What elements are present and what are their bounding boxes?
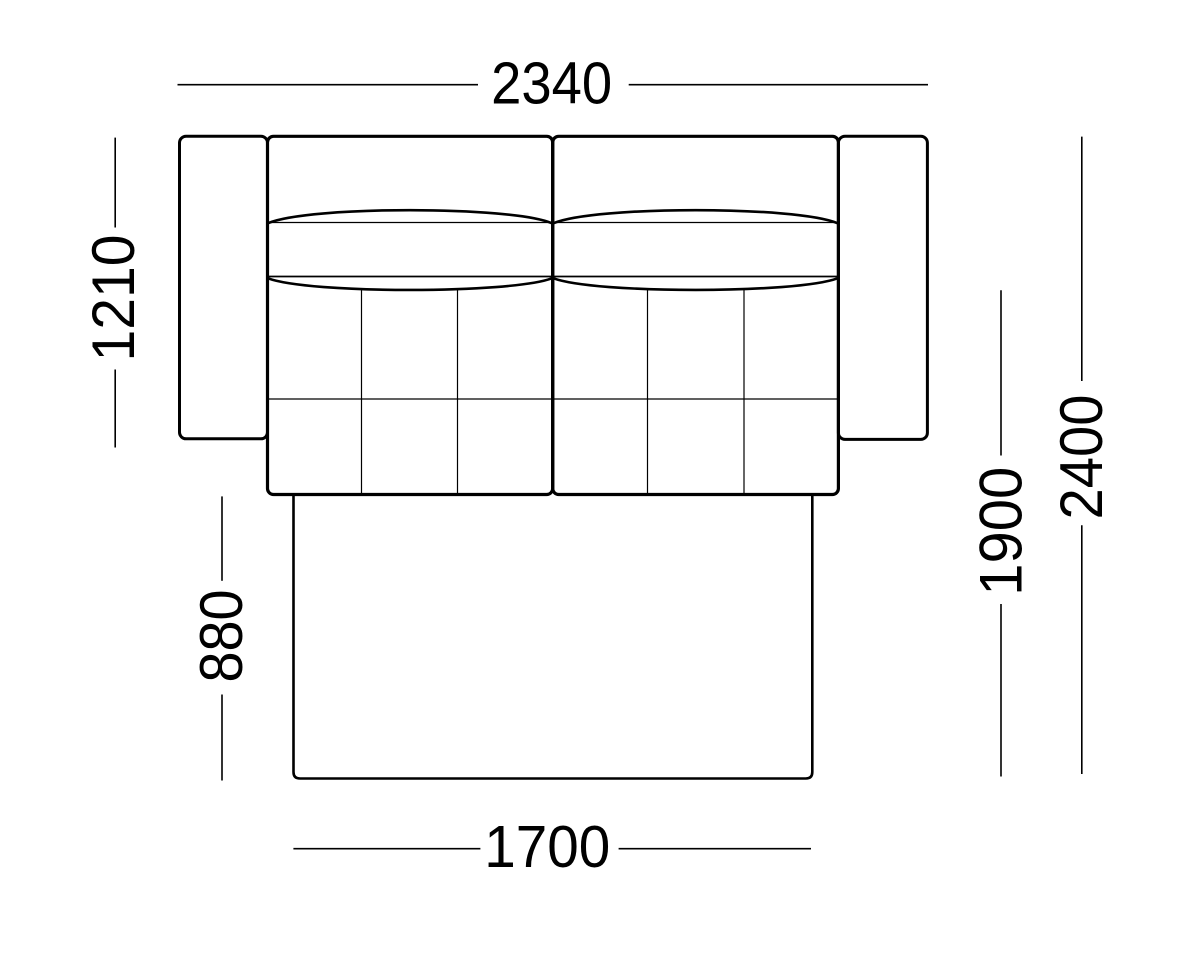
dim 2340 line left segment bbox=[178, 84, 479, 86]
seat stitch vertical left half 1 bbox=[361, 289, 363, 494]
dim 1700 line left segment bbox=[293, 848, 480, 850]
dim 1900 line bottom segment bbox=[1000, 604, 1002, 777]
dim 1900 line top segment bbox=[1000, 290, 1002, 455]
sofa body right half bbox=[553, 136, 839, 494]
seat stitch vertical right half 1 bbox=[647, 289, 649, 494]
seat back curve right bbox=[554, 278, 838, 290]
bed section bbox=[294, 495, 813, 779]
seat stitch horizontal bbox=[268, 398, 838, 400]
svg-text:2400: 2400 bbox=[1048, 395, 1115, 520]
back cushion top curve right bbox=[554, 210, 838, 223]
dim 2400 line top segment bbox=[1081, 137, 1083, 381]
seat back curve left bbox=[268, 278, 552, 290]
dim 1210 line bottom segment bbox=[114, 370, 116, 448]
right armrest bbox=[838, 136, 927, 439]
back cushion top curve left bbox=[268, 210, 552, 223]
dim 1210 line top segment bbox=[114, 138, 116, 228]
sofa body left half bbox=[268, 136, 553, 494]
dim 880 line top segment bbox=[221, 496, 223, 580]
svg-text:1700: 1700 bbox=[484, 814, 610, 880]
dim 880 line bottom segment bbox=[221, 695, 223, 781]
dim 2340 line right segment bbox=[629, 84, 928, 86]
seat stitch vertical left half 2 bbox=[457, 289, 459, 494]
back cushion bottom line bbox=[268, 276, 838, 278]
seat stitch vertical right half 2 bbox=[743, 289, 745, 494]
left armrest bbox=[180, 136, 268, 439]
svg-text:2340: 2340 bbox=[491, 50, 612, 116]
svg-text:1210: 1210 bbox=[80, 235, 147, 362]
dim 1700 line right segment bbox=[619, 848, 811, 850]
svg-text:1900: 1900 bbox=[968, 467, 1035, 596]
center seam bbox=[551, 140, 554, 492]
dim 2400 line bottom segment bbox=[1081, 525, 1083, 774]
back cushion piping line bbox=[268, 222, 838, 224]
svg-text:880: 880 bbox=[188, 590, 255, 683]
